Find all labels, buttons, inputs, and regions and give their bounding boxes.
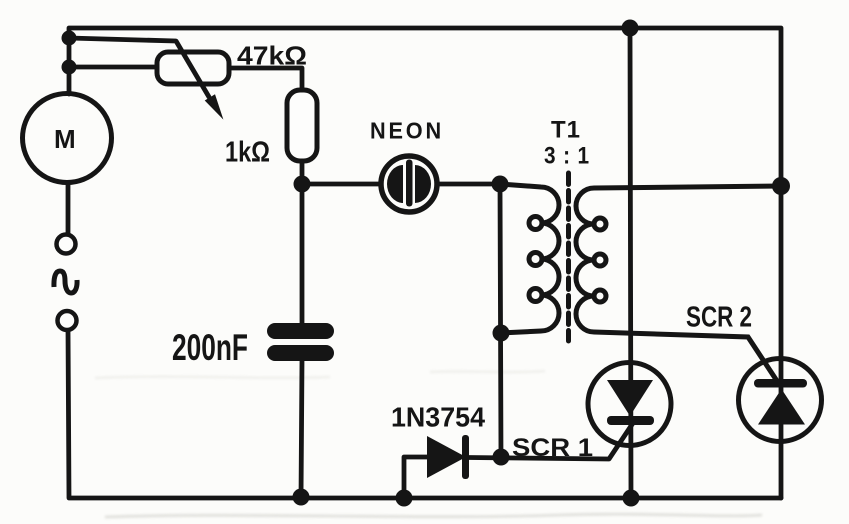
svg-text:3 : 1: 3 : 1 (544, 143, 590, 170)
svg-text:200nF: 200nF (172, 327, 248, 368)
svg-text:T1: T1 (551, 117, 581, 144)
svg-text:SCR 1: SCR 1 (512, 434, 593, 462)
svg-text:47kΩ: 47kΩ (237, 41, 307, 71)
svg-text:NEON: NEON (370, 118, 444, 144)
svg-text:1N3754: 1N3754 (391, 402, 486, 433)
svg-text:M: M (54, 124, 76, 154)
svg-text:1kΩ: 1kΩ (225, 137, 270, 169)
svg-text:SCR 2: SCR 2 (686, 302, 752, 334)
